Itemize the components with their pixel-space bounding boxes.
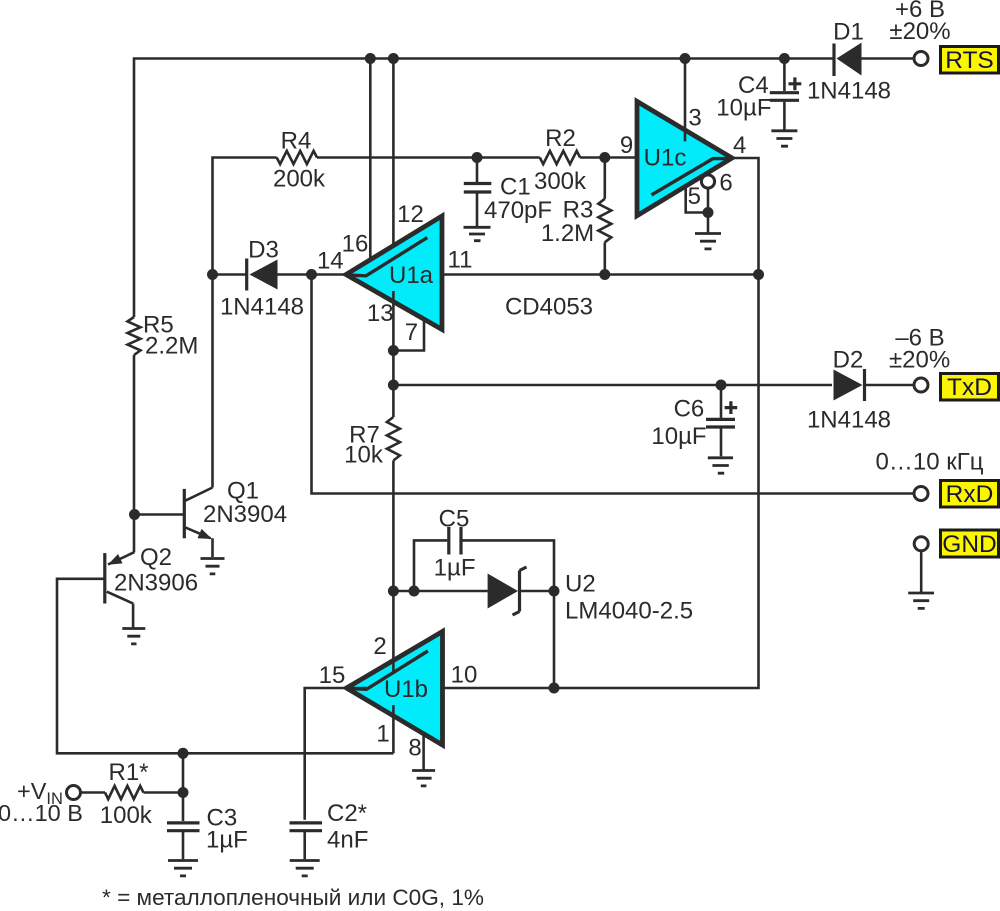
zener U2 LM4040	[488, 567, 693, 625]
junction node on pin10 line	[549, 683, 560, 694]
wire U1b pin 15 to C2	[305, 688, 367, 820]
diode D2	[807, 347, 913, 434]
wire left branch x=212 from R4 down to Q1 collector	[213, 158, 277, 488]
svg-text:4nF: 4nF	[327, 827, 368, 854]
svg-text:12: 12	[397, 201, 424, 228]
svg-text:RxD: RxD	[946, 481, 994, 508]
svg-text:300k: 300k	[534, 168, 587, 195]
diode D1	[807, 19, 913, 105]
ground under C2	[290, 861, 320, 876]
terminal RTS circle	[914, 52, 928, 66]
wire U1c pin 5 elbow	[686, 187, 708, 213]
svg-text:U1a: U1a	[389, 262, 434, 289]
svg-text:Q2: Q2	[140, 544, 172, 571]
wire U1a pin 16	[369, 59, 372, 261]
wire Q1 base	[134, 513, 184, 516]
svg-text:5: 5	[688, 183, 701, 210]
terminal TxD circle	[914, 378, 928, 392]
terminal +Vin circle	[67, 786, 81, 800]
ground under Q2	[122, 629, 145, 644]
svg-text:1: 1	[376, 721, 389, 748]
svg-text:1µF: 1µF	[206, 827, 248, 854]
svg-text:10µF: 10µF	[651, 423, 706, 450]
control circle U1c pin 6	[701, 175, 714, 188]
junction node R1/C3	[178, 787, 189, 798]
svg-text:8: 8	[408, 735, 421, 762]
svg-text:3: 3	[688, 105, 701, 132]
port box TxD	[941, 374, 999, 401]
capacitor C6	[651, 385, 737, 456]
junction node R3 bottom on pin11 line	[599, 269, 610, 280]
junction node C3/R1 top	[178, 748, 189, 759]
junction node RxD branch on pin14 line	[306, 269, 317, 280]
wire U1c pin 4 output down right side	[443, 158, 759, 688]
switch U1c	[637, 101, 732, 215]
resistor R7	[344, 351, 400, 592]
svg-text:2: 2	[373, 633, 386, 660]
wire U1a pin 7 elbow	[393, 319, 424, 351]
wire pin6 to pin5 node	[707, 189, 710, 213]
wire RxD branch down and across	[312, 275, 913, 494]
wire R2 to U1c pin 9	[580, 156, 637, 159]
capacitor C5 loop	[414, 506, 554, 592]
svg-text:±20%: ±20%	[889, 347, 950, 374]
svg-text:C2*: C2*	[327, 800, 367, 827]
svg-text:13: 13	[367, 300, 394, 327]
svg-text:1µF: 1µF	[434, 555, 476, 582]
wire U1a pin 11 output	[442, 273, 759, 276]
svg-text:LM4040-2.5: LM4040-2.5	[565, 598, 693, 625]
ground under C4	[771, 131, 797, 146]
wire U2 node down to pin10 line	[553, 591, 556, 688]
svg-text:11: 11	[448, 247, 473, 274]
port box RxD	[941, 481, 999, 509]
svg-text:GND: GND	[942, 531, 996, 558]
wire R4 to R2	[317, 156, 540, 159]
svg-text:2.2M: 2.2M	[145, 333, 198, 360]
svg-text:6: 6	[719, 170, 732, 197]
resistor R4	[273, 128, 326, 193]
resistor R3	[541, 158, 611, 275]
ground under U1c pin5	[695, 213, 721, 249]
svg-text:U1c: U1c	[644, 144, 687, 171]
transistor Q1	[184, 478, 287, 558]
port box RTS	[941, 47, 999, 75]
wire U1a pin 12	[392, 59, 395, 259]
ground under C3	[168, 861, 198, 876]
junction node Q1 base / R5 / Q2 emitter	[129, 509, 140, 520]
wire top rail from R5 top up and across to D1	[134, 59, 833, 318]
wire bottom input run	[57, 579, 393, 754]
wire U1c pin 3	[684, 59, 687, 142]
ground under Q1	[201, 559, 225, 574]
svg-text:CD4053: CD4053	[505, 294, 593, 321]
junction node C6 top	[716, 380, 727, 391]
svg-text:TxD: TxD	[947, 374, 992, 401]
svg-text:2N3904: 2N3904	[203, 501, 287, 528]
junction node U2 left / R7 line	[388, 586, 399, 597]
svg-text:10µF: 10µF	[716, 95, 771, 122]
svg-text:0…10 кГц: 0…10 кГц	[876, 449, 984, 476]
wire U1a pin 13	[392, 291, 395, 351]
junction node TxD line start	[388, 380, 399, 391]
wire U2 anode	[393, 590, 487, 593]
wire TxD line from pin13 node	[393, 384, 832, 387]
svg-text:R4: R4	[281, 128, 312, 155]
svg-text:1N4148: 1N4148	[807, 78, 891, 105]
junction node C1 top	[472, 152, 483, 163]
capacitor C2	[290, 800, 369, 859]
switch U1a	[346, 216, 442, 330]
svg-text:* = металлопленочный или C0G,: * = металлопленочный или C0G, 1%	[102, 885, 484, 910]
ground under U1b pin 8	[412, 771, 435, 786]
svg-text:10: 10	[451, 662, 478, 689]
junction node pin5/pin6	[703, 207, 714, 218]
svg-text:RTS: RTS	[945, 47, 994, 74]
svg-text:15: 15	[319, 662, 346, 689]
resistor R5	[128, 312, 199, 553]
wire U1b pin 1	[392, 705, 395, 753]
svg-text:D1: D1	[833, 19, 864, 46]
svg-text:0…10 В: 0…10 В	[0, 800, 83, 826]
junction node pin16 on top rail	[365, 53, 376, 64]
ground under C6	[708, 458, 733, 473]
svg-text:D3: D3	[248, 237, 279, 264]
junction node R2/R3/pin9	[599, 152, 610, 163]
ground under C1	[464, 227, 491, 240]
svg-text:R1*: R1*	[108, 759, 148, 786]
capacitor C4	[716, 59, 801, 130]
svg-text:±20%: ±20%	[889, 18, 950, 45]
capacitor C3	[167, 805, 248, 860]
svg-text:C5: C5	[439, 506, 470, 533]
svg-text:9: 9	[620, 132, 633, 159]
svg-text:C6: C6	[674, 396, 705, 423]
svg-text:200k: 200k	[273, 166, 326, 193]
junction node pin3 on top rail	[680, 53, 691, 64]
port box GND	[941, 530, 999, 558]
ground under GND terminal	[908, 593, 934, 608]
diode D3	[213, 237, 347, 321]
svg-text:1N4148: 1N4148	[220, 294, 304, 321]
capacitor C1	[464, 158, 552, 227]
svg-text:1N4148: 1N4148	[807, 407, 891, 434]
svg-text:100k: 100k	[100, 802, 153, 829]
wire U1b pin 8	[422, 733, 425, 770]
svg-text:U2: U2	[565, 571, 596, 598]
wire C3 branch	[182, 753, 185, 821]
svg-text:1.2M: 1.2M	[541, 220, 594, 247]
svg-text:R2: R2	[545, 125, 576, 152]
resistor R1	[82, 759, 184, 829]
svg-text:16: 16	[342, 231, 369, 258]
svg-text:14: 14	[317, 248, 344, 275]
terminal GND circle	[914, 537, 928, 551]
junction node D3 anode / x=212 branch	[207, 269, 218, 280]
terminal RxD circle	[914, 487, 928, 501]
svg-text:D2: D2	[833, 347, 864, 374]
junction node C5 left	[409, 586, 420, 597]
svg-text:U1b: U1b	[384, 676, 428, 703]
svg-text:2N3906: 2N3906	[114, 570, 198, 597]
junction node U2 right / C5 right	[549, 586, 560, 597]
resistor R2	[534, 125, 587, 195]
wire GND terminal lead	[920, 551, 923, 592]
svg-text:10k: 10k	[344, 442, 384, 469]
junction node pin12 on top rail	[388, 53, 399, 64]
svg-text:4: 4	[733, 132, 746, 159]
transistor Q2	[105, 544, 198, 627]
junction node C4 top on rail	[779, 53, 790, 64]
junction node pin4 line / pin11 line	[753, 269, 764, 280]
junction node pin13/pin7	[388, 345, 399, 356]
switch U1b	[347, 632, 443, 746]
svg-text:7: 7	[405, 319, 418, 346]
wire U1b pin 2	[392, 591, 395, 672]
